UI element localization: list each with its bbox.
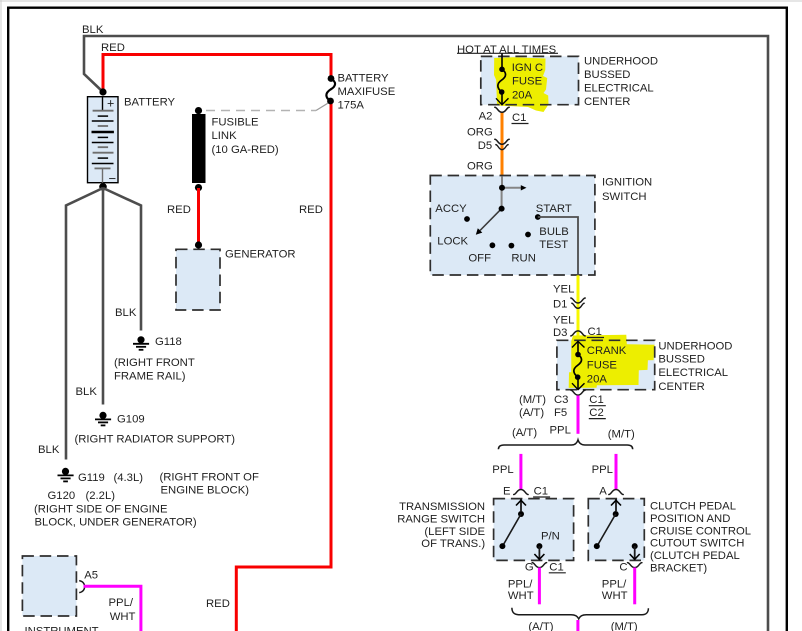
fusible link body: [192, 114, 206, 183]
svg-text:E: E: [503, 486, 511, 498]
label BLK (top): [82, 24, 104, 36]
svg-text:PPL: PPL: [592, 464, 613, 476]
svg-text:BULB: BULB: [539, 226, 569, 238]
svg-text:ELECTRICAL: ELECTRICAL: [584, 83, 654, 95]
svg-text:C1: C1: [549, 561, 563, 573]
brace merge A/T M/T: [512, 608, 649, 619]
label E: [503, 486, 511, 498]
label RED (mid right): [299, 204, 323, 216]
connector A entry: [609, 490, 623, 495]
TRS P/N contact and exit arrow: [534, 543, 544, 559]
connector E entry: [514, 490, 528, 495]
label UNDERHOOD BUSSED ELECTRICAL CENTER (2): [658, 340, 732, 393]
svg-text:BLK: BLK: [76, 386, 98, 398]
ignition feed node: [499, 185, 527, 209]
svg-text:FRAME RAIL): FRAME RAIL): [114, 371, 186, 383]
svg-text:RED: RED: [299, 204, 323, 216]
svg-text:CRANK: CRANK: [587, 345, 627, 357]
svg-text:BRACKET): BRACKET): [650, 563, 707, 575]
svg-text:G118: G118: [155, 336, 182, 348]
svg-text:LINK: LINK: [212, 130, 238, 142]
svg-text:(M/T): (M/T): [611, 621, 638, 631]
svg-text:CLUTCH PEDAL: CLUTCH PEDAL: [650, 501, 736, 513]
wire PPL main: [577, 396, 580, 434]
label BATTERY MAXIFUSE 175A: [338, 73, 396, 112]
label IGNITION SWITCH: [602, 177, 652, 204]
CPP switch contacts: [594, 511, 619, 549]
ground G109: [95, 412, 111, 426]
svg-text:RED: RED: [167, 204, 191, 216]
svg-text:PPL/: PPL/: [508, 579, 533, 591]
wire BLK branch to G118: [103, 188, 141, 331]
label HOT AT ALL TIMES: [457, 44, 558, 56]
wire BLK branch to G109: [102, 188, 105, 405]
label BULB TEST: [539, 226, 569, 251]
wire BLK branch to G119: [66, 188, 103, 460]
label (A/T) (left branch): [512, 427, 537, 439]
label START: [536, 203, 572, 215]
label FUSIBLE LINK (10 GA-RED): [212, 117, 279, 157]
label TRANSMISSION RANGE SWITCH (LEFT SIDE OF TRANS.): [397, 501, 485, 550]
UBEC1 box border: [481, 56, 579, 104]
connector C1 entry UBEC2: [571, 331, 585, 336]
svg-text:A2: A2: [479, 111, 493, 123]
svg-text:GENERATOR: GENERATOR: [225, 249, 296, 261]
svg-text:POSITION AND: POSITION AND: [650, 513, 730, 525]
label OFF: [468, 252, 491, 264]
svg-text:YEL: YEL: [553, 284, 574, 296]
highlight CRANK FUSE: [569, 335, 655, 388]
svg-text:FUSIBLE: FUSIBLE: [212, 117, 260, 129]
label P/N: [541, 531, 560, 543]
svg-text:C1: C1: [588, 326, 602, 338]
connector G exit: [532, 563, 546, 568]
svg-text:RED: RED: [206, 598, 230, 610]
svg-text:F5: F5: [554, 407, 567, 419]
svg-text:(RIGHT RADIATOR SUPPORT): (RIGHT RADIATOR SUPPORT): [75, 434, 236, 446]
svg-text:(CLUTCH PEDAL: (CLUTCH PEDAL: [650, 550, 740, 562]
svg-text:CUTOUT SWITCH: CUTOUT SWITCH: [650, 538, 744, 550]
brace split A/T M/T: [498, 440, 632, 450]
node ACCY: [464, 216, 470, 222]
svg-text:20A: 20A: [587, 374, 608, 386]
label RED (bottom): [206, 598, 230, 610]
label (RIGHT RADIATOR SUPPORT): [75, 434, 236, 446]
svg-text:G: G: [525, 561, 534, 573]
connector D5: [495, 139, 509, 149]
svg-text:+: +: [107, 97, 114, 111]
svg-text:C1: C1: [534, 486, 548, 498]
svg-text:PPL: PPL: [550, 424, 571, 436]
svg-text:CRUISE CONTROL: CRUISE CONTROL: [650, 525, 751, 537]
svg-text:WHT: WHT: [508, 590, 534, 602]
fuse CRANK 20A: [572, 341, 585, 390]
label A: [599, 486, 607, 498]
CPP output contact and exit arrow: [630, 543, 640, 559]
label G109: [117, 414, 145, 426]
label G: [525, 561, 534, 573]
svg-text:START: START: [536, 203, 572, 215]
label YEL (upper): [553, 284, 574, 296]
label GENERATOR: [225, 249, 296, 261]
label PPL (right): [592, 464, 613, 476]
ignition switch box: [430, 176, 595, 276]
svg-text:PPL/: PPL/: [602, 579, 627, 591]
label BLK (G119 branch): [38, 444, 60, 456]
label (M/T) (bottom): [611, 621, 638, 631]
fuse IGN C 20A: [496, 54, 509, 105]
label C1 (entry UBEC2): [587, 326, 604, 338]
label PPL (left): [492, 464, 513, 476]
svg-text:UNDERHOOD: UNDERHOOD: [584, 56, 658, 68]
svg-text:INSTRUMENT: INSTRUMENT: [25, 625, 99, 631]
label (M/T) C3 C1: [519, 394, 606, 406]
wire PPL/WHT left: [538, 568, 541, 605]
svg-text:ELECTRICAL: ELECTRICAL: [658, 367, 728, 379]
svg-text:RANGE SWITCH: RANGE SWITCH: [397, 513, 485, 525]
svg-text:175A: 175A: [338, 100, 365, 112]
label G120 (2.2L): [48, 490, 116, 502]
svg-text:−: −: [109, 171, 117, 186]
ignition wiper: [476, 206, 505, 235]
svg-text:G119: G119: [78, 472, 105, 484]
node RUN: [509, 243, 515, 249]
generator node: [195, 241, 202, 248]
label PPL/WHT (left): [508, 579, 534, 603]
connector C exit: [628, 563, 642, 568]
label D3: [553, 327, 567, 339]
node OFF: [490, 242, 496, 248]
UBEC1 box: [481, 56, 579, 104]
label G118: [155, 336, 182, 348]
label C1 (TRS exit): [549, 561, 566, 573]
svg-text:G120: G120: [48, 490, 76, 502]
svg-text:C1: C1: [589, 394, 603, 406]
svg-text:C1: C1: [512, 112, 526, 124]
svg-text:UNDERHOOD: UNDERHOOD: [658, 340, 732, 352]
svg-text:FUSE: FUSE: [587, 359, 618, 371]
label G119 (4.3L): [78, 472, 143, 484]
label BLK (G109 branch): [76, 386, 98, 398]
svg-text:PPL: PPL: [492, 464, 513, 476]
svg-text:(RIGHT SIDE OF ENGINE: (RIGHT SIDE OF ENGINE: [34, 504, 168, 516]
TRS switch contacts: [499, 511, 524, 549]
wire ORG: [501, 112, 504, 177]
CPP entry arrow: [611, 499, 621, 511]
svg-text:(A/T): (A/T): [512, 427, 537, 439]
wire YEL: [577, 275, 580, 340]
svg-text:BUSSED: BUSSED: [584, 69, 630, 81]
label (RIGHT FRONT: [114, 357, 195, 369]
instrument cluster box: [22, 556, 76, 616]
node battery positive: [99, 88, 106, 95]
battery symbol: [88, 97, 119, 187]
connector D1: [571, 298, 585, 308]
label C1 (UBEC1): [512, 112, 529, 124]
label ORG (lower): [467, 161, 493, 173]
svg-text:BATTERY: BATTERY: [338, 73, 390, 85]
svg-text:ENGINE BLOCK): ENGINE BLOCK): [161, 485, 250, 497]
svg-text:CENTER: CENTER: [658, 381, 704, 393]
svg-text:OFF: OFF: [468, 252, 491, 264]
wire PPL left branch: [519, 454, 522, 490]
svg-text:D3: D3: [553, 327, 567, 339]
label (RIGHT FRONT OF ENGINE BLOCK): [160, 472, 259, 497]
fusible link node bottom: [195, 184, 202, 191]
label D1: [553, 299, 567, 311]
svg-text:(A/T): (A/T): [519, 407, 544, 419]
node battery negative: [99, 183, 107, 191]
wire START to box bottom: [538, 217, 578, 275]
svg-text:D1: D1: [553, 299, 567, 311]
label LOCK: [437, 235, 468, 247]
battery maxifuse: [326, 75, 335, 104]
svg-text:OF TRANS.): OF TRANS.): [421, 538, 485, 550]
svg-text:20A: 20A: [512, 90, 533, 102]
svg-text:ORG: ORG: [467, 161, 493, 173]
svg-text:(2.2L): (2.2L): [86, 490, 116, 502]
svg-text:(M/T): (M/T): [519, 394, 546, 406]
label A5: [84, 570, 98, 582]
label YEL (lower): [553, 315, 574, 327]
svg-text:SWITCH: SWITCH: [602, 191, 647, 203]
TRS entry arrow: [516, 499, 526, 511]
svg-text:HOT AT ALL TIMES: HOT AT ALL TIMES: [457, 44, 557, 56]
svg-text:BLK: BLK: [115, 307, 137, 319]
svg-text:WHT: WHT: [110, 611, 136, 623]
label FRAME RAIL): [114, 371, 186, 383]
generator box: [176, 249, 220, 310]
label (RIGHT SIDE OF ENGINE BLOCK, UNDER GENERATOR): [34, 504, 197, 529]
svg-text:C: C: [619, 561, 627, 573]
label A2: [479, 111, 493, 123]
svg-text:YEL: YEL: [553, 315, 574, 327]
svg-text:ORG: ORG: [467, 127, 493, 139]
svg-text:A: A: [599, 486, 607, 498]
svg-text:A5: A5: [84, 570, 98, 582]
svg-text:D5: D5: [478, 140, 492, 152]
label BATTERY: [124, 97, 176, 109]
svg-text:CENTER: CENTER: [584, 96, 630, 108]
svg-text:TEST: TEST: [539, 239, 568, 251]
wire PPL right branch: [615, 454, 618, 490]
svg-text:(LEFT SIDE: (LEFT SIDE: [424, 526, 485, 538]
fusible link node top: [195, 107, 202, 114]
svg-text:LOCK: LOCK: [437, 235, 468, 247]
svg-text:BATTERY: BATTERY: [124, 97, 176, 109]
label RED (generator): [167, 204, 191, 216]
connector C1/C2 below UBEC2: [571, 390, 585, 395]
svg-text:(10 GA-RED): (10 GA-RED): [212, 144, 279, 156]
svg-text:RUN: RUN: [511, 252, 535, 264]
connector A5: [79, 581, 84, 593]
svg-text:(M/T): (M/T): [608, 429, 635, 441]
label RUN: [511, 252, 535, 264]
svg-text:FUSE: FUSE: [512, 76, 543, 88]
label CLUTCH PEDAL POSITION AND CRUISE CONTROL CUTOUT SWITCH (CLUTCH PEDAL BRACKET): [650, 501, 751, 575]
svg-text:(4.3L): (4.3L): [114, 472, 144, 484]
label C1 (TRS entry): [533, 486, 550, 498]
svg-text:C3: C3: [554, 394, 568, 406]
label INSTRUMENT: [25, 625, 99, 631]
label ORG (upper): [467, 127, 493, 139]
svg-text:WHT: WHT: [602, 590, 628, 602]
label (A/T) (bottom): [528, 621, 553, 631]
svg-text:(RIGHT FRONT OF: (RIGHT FRONT OF: [160, 472, 259, 484]
ground G118: [133, 336, 149, 350]
svg-text:BLK: BLK: [38, 444, 60, 456]
svg-text:P/N: P/N: [541, 531, 560, 543]
svg-text:ACCY: ACCY: [435, 203, 467, 215]
svg-text:TRANSMISSION: TRANSMISSION: [399, 501, 485, 513]
label (M/T) (right branch): [608, 429, 635, 441]
label CRANK FUSE 20A: [587, 345, 627, 386]
label C: [619, 561, 627, 573]
label BLK (G118 branch): [115, 307, 137, 319]
svg-text:BUSSED: BUSSED: [658, 354, 704, 366]
UBEC2 box: [557, 340, 655, 389]
label ACCY: [435, 203, 467, 215]
label PPL/WHT (right): [602, 579, 628, 603]
svg-text:(A/T): (A/T): [528, 621, 553, 631]
wire RED fusible link to generator: [197, 188, 200, 244]
highlight IGN C FUSE: [494, 57, 549, 112]
svg-text:BLOCK, UNDER GENERATOR): BLOCK, UNDER GENERATOR): [35, 517, 197, 529]
svg-text:PPL/: PPL/: [109, 597, 134, 609]
label (A/T) F5 C2: [519, 407, 606, 419]
node BULB TEST: [525, 232, 531, 238]
node START: [535, 214, 541, 220]
dashed link fusible link to maxifuse: [206, 103, 329, 111]
svg-text:BLK: BLK: [82, 24, 104, 36]
wire ignition feed inside switch: [501, 176, 503, 188]
svg-text:G109: G109: [117, 414, 145, 426]
clutch pedal position switch box: [588, 499, 644, 561]
svg-text:MAXIFUSE: MAXIFUSE: [338, 86, 396, 98]
wire PPL/WHT merged: [576, 620, 579, 631]
label PPL (main): [550, 424, 571, 436]
svg-text:IGNITION: IGNITION: [602, 177, 652, 189]
svg-text:IGN C: IGN C: [512, 62, 543, 74]
label PPL/WHT (instrument): [109, 597, 136, 623]
ground G119: [58, 468, 74, 482]
wire PPL/WHT instrument: [84, 586, 141, 631]
wire RED from battery to maxifuse and down: [103, 55, 331, 631]
svg-text:(RIGHT FRONT: (RIGHT FRONT: [114, 357, 195, 369]
label IGN C FUSE 20A: [512, 62, 543, 102]
svg-text:RED: RED: [101, 42, 125, 54]
wire PPL/WHT right: [633, 568, 636, 605]
label UNDERHOOD BUSSED ELECTRICAL CENTER (1): [584, 56, 658, 109]
label D5: [478, 140, 492, 152]
UBEC2 box border: [557, 340, 655, 389]
svg-text:C2: C2: [589, 407, 603, 419]
label RED (top): [101, 42, 125, 54]
transmission range switch box: [494, 499, 574, 561]
connector C1 below UBEC1: [495, 107, 509, 112]
